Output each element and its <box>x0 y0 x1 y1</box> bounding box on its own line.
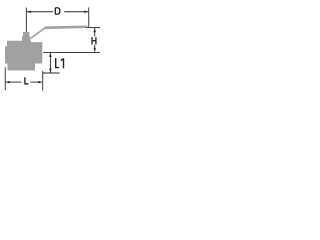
extension line right of D <box>88 7 90 27</box>
L1 top arrowhead <box>49 53 52 57</box>
L dimension line right segment <box>30 81 41 83</box>
L right extension line <box>42 71 44 91</box>
L dimension line left segment <box>6 81 21 83</box>
D dimension line right segment <box>64 11 88 13</box>
pipe-top reference line <box>43 51 100 53</box>
D left arrowhead <box>27 11 31 14</box>
label L1 <box>56 58 64 68</box>
H dimension line top segment <box>94 28 96 36</box>
label H <box>92 37 96 44</box>
D right arrowhead <box>84 11 88 14</box>
H top arrowhead <box>93 28 96 32</box>
L1 bottom arrowhead <box>49 69 52 73</box>
extension line left of D <box>25 8 27 32</box>
H dimension line bottom segment <box>94 45 96 52</box>
handle lever diagonal <box>31 26 46 39</box>
handle grip bar <box>45 26 87 30</box>
label D <box>55 8 60 15</box>
ball valve dimension drawing <box>0 0 100 100</box>
handle-level reference line <box>86 27 100 29</box>
H bottom arrowhead <box>93 48 96 52</box>
L right arrowhead <box>38 81 42 84</box>
L left extension line <box>4 67 6 90</box>
stem flange <box>22 36 30 41</box>
L left arrowhead <box>6 81 10 84</box>
valve body <box>5 41 42 71</box>
label L <box>25 77 29 84</box>
L1 bottom reference line <box>43 72 60 74</box>
stem nut <box>23 32 29 37</box>
L1 dimension line <box>49 53 51 73</box>
D dimension line left segment <box>27 11 53 13</box>
